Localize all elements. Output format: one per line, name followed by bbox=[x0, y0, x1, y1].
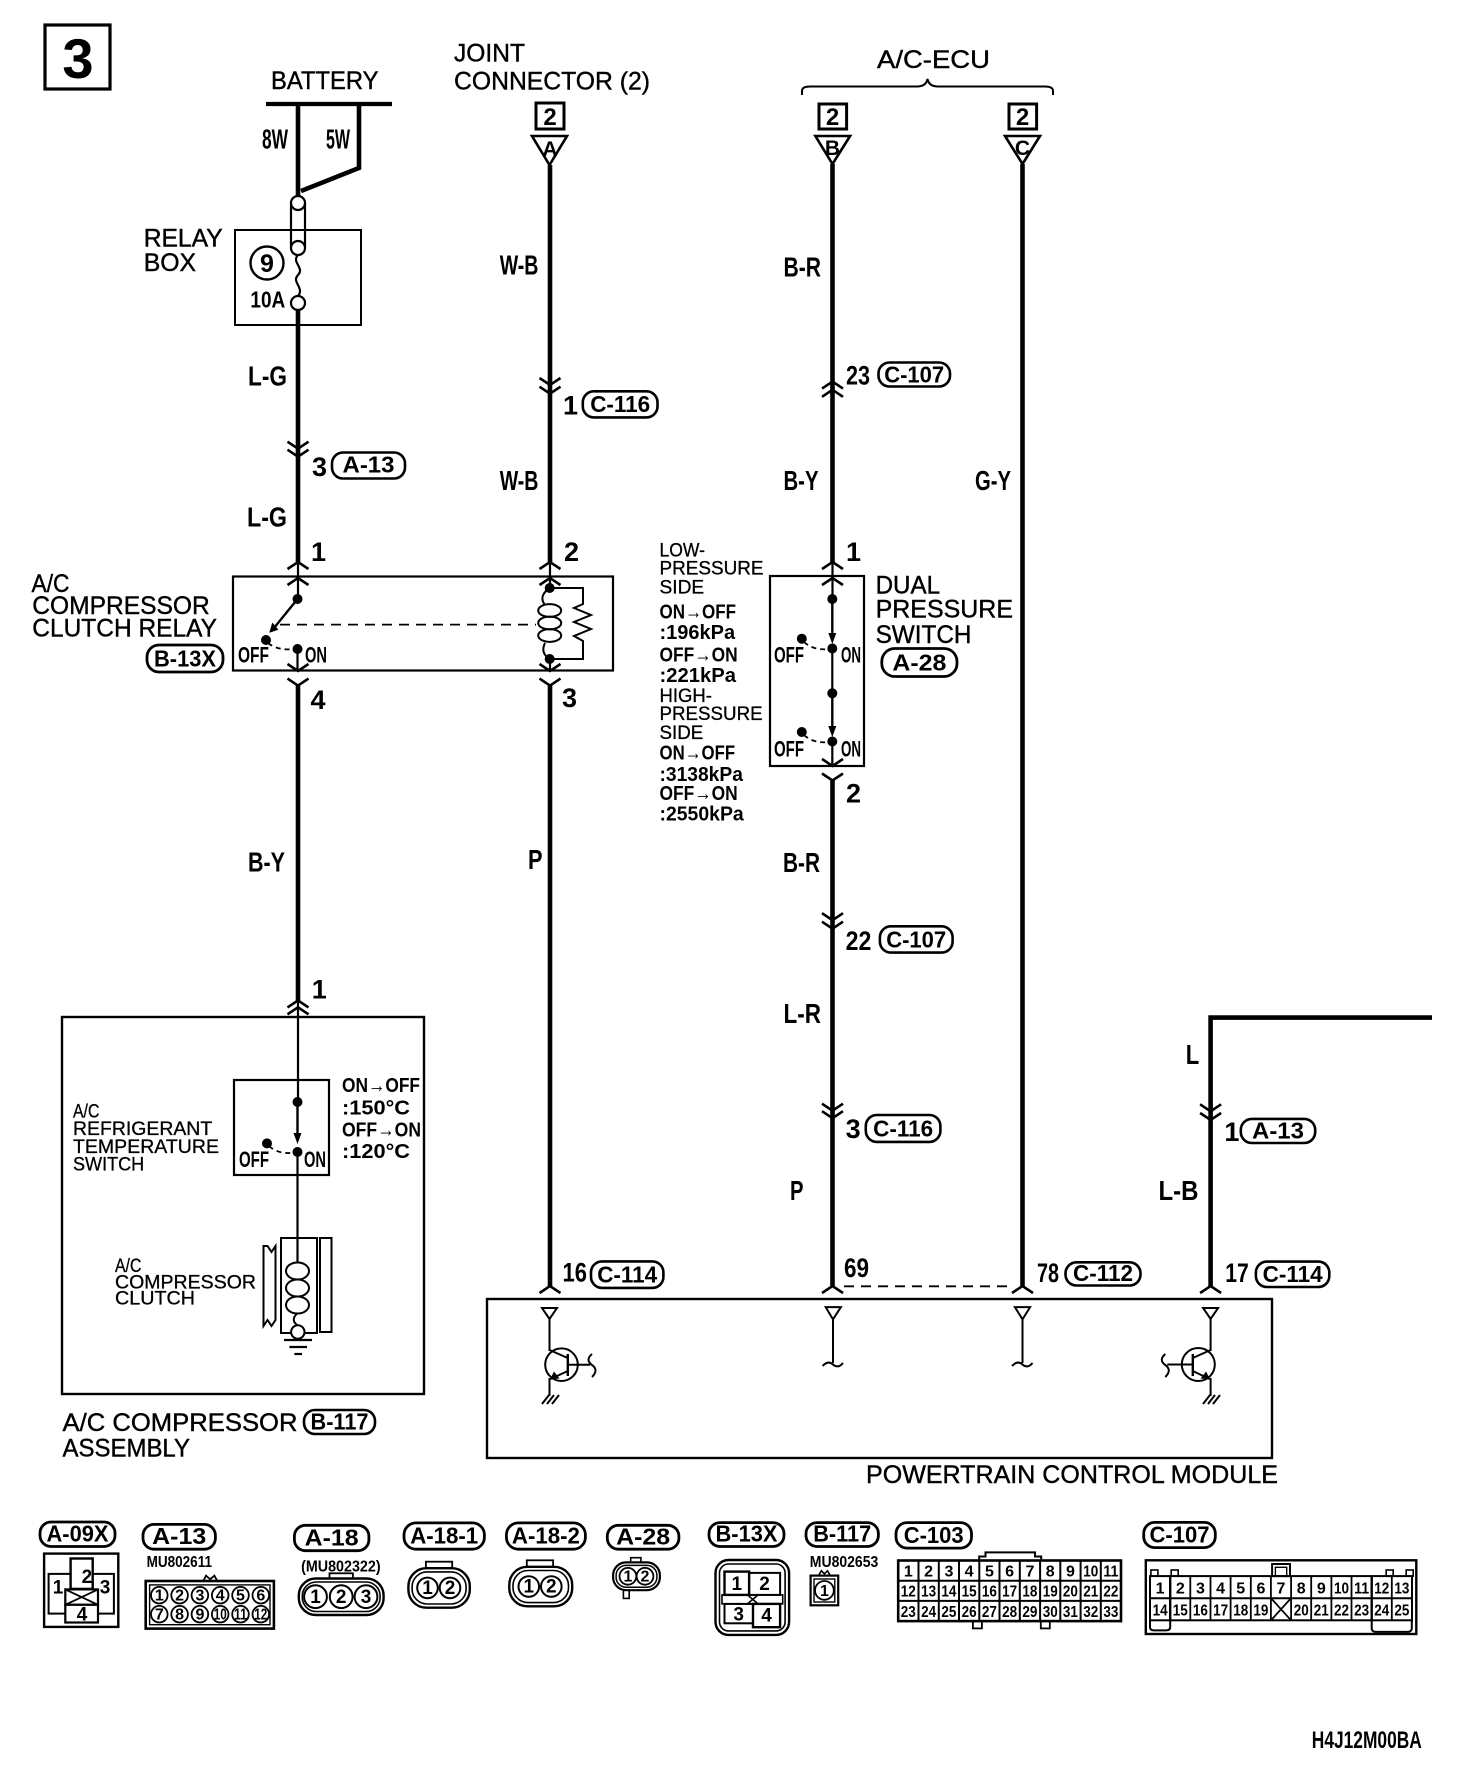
svg-text:3: 3 bbox=[312, 452, 327, 482]
svg-text:28: 28 bbox=[1002, 1604, 1017, 1621]
svg-text:A-28: A-28 bbox=[892, 650, 946, 676]
PCM pin 78 terminal bbox=[1012, 1258, 1141, 1293]
svg-text:11: 11 bbox=[1103, 1564, 1118, 1581]
fuse 9 10A element bbox=[291, 255, 305, 310]
DPS low OFF node bbox=[797, 634, 807, 644]
svg-text:4: 4 bbox=[965, 1564, 974, 1581]
svg-text:9: 9 bbox=[1066, 1564, 1075, 1581]
svg-text:13: 13 bbox=[1394, 1581, 1409, 1598]
A/C compressor clutch relay box bbox=[233, 577, 613, 671]
DPS high dashed throw bbox=[804, 735, 830, 742]
svg-text:25: 25 bbox=[941, 1604, 956, 1621]
svg-text:3: 3 bbox=[733, 1605, 744, 1626]
relay ON contact node bbox=[293, 644, 303, 654]
connector C-103 bottom tabs bbox=[973, 1621, 1050, 1628]
svg-text:C: C bbox=[1015, 137, 1030, 160]
svg-text:9: 9 bbox=[260, 250, 274, 278]
svg-text:6: 6 bbox=[1005, 1564, 1014, 1581]
svg-text:16: 16 bbox=[982, 1584, 997, 1601]
connector A-18-1 pinout bbox=[408, 1562, 469, 1608]
svg-text:30: 30 bbox=[1043, 1604, 1058, 1621]
svg-text:17: 17 bbox=[1225, 1258, 1249, 1288]
svg-text:C-116: C-116 bbox=[590, 391, 650, 417]
svg-text:2: 2 bbox=[1016, 104, 1029, 131]
clutch ground terminal circle bbox=[291, 1325, 304, 1338]
connector B-13X pinout bbox=[716, 1560, 790, 1635]
svg-text:ON: ON bbox=[304, 1147, 326, 1172]
svg-text:B-13X: B-13X bbox=[154, 646, 217, 672]
DPS high side blade arrow bbox=[828, 693, 836, 737]
transistor Q17 bbox=[1162, 1308, 1218, 1396]
relay coil top node bbox=[545, 583, 555, 593]
inline connector 22 (C-107) bbox=[822, 913, 953, 956]
connector A-28 tag bbox=[607, 1523, 679, 1549]
connector A-09X pinout bbox=[44, 1554, 118, 1627]
svg-text:18: 18 bbox=[1233, 1603, 1248, 1620]
connector A-28 pinout bbox=[613, 1558, 660, 1599]
inline connector 1 (A-13) right bbox=[1200, 1104, 1315, 1147]
svg-text:L: L bbox=[1186, 1039, 1200, 1070]
svg-text:A: A bbox=[542, 138, 557, 161]
svg-text::221kPa: :221kPa bbox=[660, 665, 737, 687]
connector B-117 tag bbox=[806, 1521, 878, 1547]
DPS high ON node bbox=[827, 737, 837, 747]
wire relay switch stub bbox=[297, 562, 299, 599]
connector C-107 tag bbox=[1144, 1522, 1216, 1548]
svg-text:W-B: W-B bbox=[500, 465, 539, 496]
svg-text:4: 4 bbox=[1216, 1581, 1225, 1598]
connector B-117 pinout bbox=[811, 1571, 839, 1605]
svg-text:2: 2 bbox=[175, 1588, 184, 1605]
battery bbox=[266, 67, 392, 104]
relay switch contact node bbox=[293, 594, 303, 604]
svg-text:4: 4 bbox=[761, 1606, 772, 1627]
svg-text:14: 14 bbox=[1153, 1603, 1168, 1620]
svg-text:OFF: OFF bbox=[239, 1147, 269, 1172]
svg-text:12: 12 bbox=[901, 1584, 916, 1601]
svg-text:1: 1 bbox=[310, 1587, 321, 1608]
svg-text:3: 3 bbox=[195, 1588, 204, 1605]
A/C compressor clutch relay label bbox=[32, 570, 218, 643]
A/C compressor assembly box bbox=[62, 1017, 424, 1394]
svg-text:L-G: L-G bbox=[247, 502, 287, 533]
relay box label bbox=[144, 225, 223, 278]
svg-text:31: 31 bbox=[1063, 1604, 1078, 1621]
svg-text:20: 20 bbox=[1294, 1603, 1309, 1620]
connector C-107 bottom feet bbox=[1150, 1620, 1412, 1632]
svg-text:1: 1 bbox=[422, 1578, 433, 1599]
relay OFF contact node bbox=[261, 635, 271, 645]
svg-text:ON→OFF: ON→OFF bbox=[660, 602, 737, 624]
svg-text:G-Y: G-Y bbox=[975, 465, 1011, 496]
svg-text:2: 2 bbox=[846, 779, 861, 809]
connector A-18-2 tag bbox=[506, 1523, 585, 1550]
svg-text:2: 2 bbox=[546, 1577, 557, 1598]
svg-text:22: 22 bbox=[846, 926, 872, 956]
temp switch ON node bbox=[293, 1147, 303, 1157]
svg-text:A-13: A-13 bbox=[152, 1523, 206, 1549]
svg-text:7: 7 bbox=[1025, 1564, 1034, 1581]
svg-text:23: 23 bbox=[846, 361, 870, 391]
svg-text:B-R: B-R bbox=[783, 847, 820, 878]
joint connector label bbox=[454, 40, 650, 96]
svg-text:B-R: B-R bbox=[784, 252, 822, 283]
temp switch OFF node bbox=[262, 1138, 272, 1148]
transistor Q16 bbox=[542, 1308, 596, 1396]
svg-text:P: P bbox=[528, 844, 543, 875]
wire B-R ECU-B down bbox=[830, 164, 835, 562]
svg-text:4: 4 bbox=[311, 685, 326, 715]
connector C-107 pin numbers row1 bbox=[1156, 1581, 1410, 1598]
relay coil bottom node bbox=[545, 654, 555, 664]
svg-text:1: 1 bbox=[623, 1569, 632, 1586]
svg-text:10: 10 bbox=[1334, 1581, 1349, 1598]
svg-text::2550kPa: :2550kPa bbox=[660, 804, 745, 826]
svg-text:1: 1 bbox=[312, 975, 327, 1005]
svg-text:POWERTRAIN CONTROL MODULE: POWERTRAIN CONTROL MODULE bbox=[866, 1461, 1278, 1489]
svg-text:C-114: C-114 bbox=[597, 1262, 657, 1288]
svg-text:11: 11 bbox=[234, 1607, 247, 1624]
wire W-B joint connector down bbox=[548, 165, 553, 562]
svg-text:8: 8 bbox=[175, 1607, 184, 1624]
svg-text:27: 27 bbox=[982, 1604, 997, 1621]
svg-text:24: 24 bbox=[1374, 1603, 1389, 1620]
svg-text:OFF→ON: OFF→ON bbox=[660, 783, 738, 805]
svg-text:1: 1 bbox=[311, 537, 326, 567]
connector C-103 tag bbox=[896, 1522, 972, 1548]
svg-text:MU802611: MU802611 bbox=[147, 1554, 212, 1571]
relay pin1 entry chevrons bbox=[288, 562, 309, 585]
svg-text:12: 12 bbox=[1374, 1581, 1389, 1598]
svg-text:L-G: L-G bbox=[248, 361, 287, 392]
svg-text:2: 2 bbox=[445, 1578, 456, 1599]
connector C-103 top latch bbox=[979, 1552, 1041, 1560]
svg-text:22: 22 bbox=[1334, 1603, 1349, 1620]
svg-text:C-114: C-114 bbox=[1263, 1261, 1323, 1287]
svg-text:1: 1 bbox=[732, 1574, 743, 1595]
svg-text:A-18-1: A-18-1 bbox=[410, 1523, 478, 1549]
svg-text:2: 2 bbox=[826, 104, 839, 131]
svg-text:13: 13 bbox=[921, 1584, 936, 1601]
svg-text:17: 17 bbox=[1002, 1584, 1017, 1601]
svg-text:C-112: C-112 bbox=[1073, 1260, 1133, 1286]
wire L horizontal top right bbox=[1211, 1018, 1432, 1286]
A/C-ECU terminal B bbox=[815, 104, 850, 164]
connector A-18 pinout bbox=[299, 1573, 384, 1615]
svg-text:JOINT: JOINT bbox=[454, 40, 525, 68]
connector A-13 pinout bbox=[146, 1576, 274, 1629]
svg-text:6: 6 bbox=[256, 1588, 265, 1605]
svg-text:69: 69 bbox=[844, 1253, 869, 1283]
PCM pin 16 terminal bbox=[540, 1258, 664, 1294]
svg-text:CLUTCH: CLUTCH bbox=[115, 1289, 195, 1310]
svg-text:C-107: C-107 bbox=[1150, 1522, 1210, 1548]
svg-text:3: 3 bbox=[100, 1577, 111, 1598]
svg-text:L-R: L-R bbox=[784, 998, 822, 1029]
connector A-13 tag bbox=[143, 1523, 215, 1549]
A/C-ECU terminal C bbox=[1005, 104, 1040, 164]
connector C-107 housing bbox=[1146, 1560, 1417, 1634]
relay coil wire stub top bbox=[549, 562, 551, 588]
DPS low side top node bbox=[827, 594, 837, 604]
PCM pin 69 terminal bbox=[822, 1253, 869, 1293]
svg-text:22: 22 bbox=[1103, 1584, 1118, 1601]
svg-text:1: 1 bbox=[524, 1577, 535, 1598]
wire G-Y ECU-C down bbox=[1020, 164, 1025, 1286]
connector C-103 pinout grid bbox=[898, 1561, 1121, 1622]
svg-text:A-28: A-28 bbox=[616, 1523, 670, 1549]
svg-text:18: 18 bbox=[1022, 1584, 1037, 1601]
svg-text:23: 23 bbox=[901, 1604, 916, 1621]
svg-text:PRESSURE: PRESSURE bbox=[876, 596, 1013, 624]
connector C-107 pin numbers row2 bbox=[1153, 1599, 1410, 1619]
svg-text:B: B bbox=[825, 137, 840, 160]
wire 5W from battery bbox=[301, 104, 359, 191]
svg-text:3: 3 bbox=[944, 1564, 953, 1581]
relay pin4 exit chevrons bbox=[288, 649, 309, 686]
svg-text:6: 6 bbox=[1256, 1581, 1265, 1598]
svg-text:SWITCH: SWITCH bbox=[73, 1155, 144, 1176]
svg-text:19: 19 bbox=[1043, 1584, 1058, 1601]
connector A-18-1 tag bbox=[404, 1523, 484, 1550]
relay actuation dashed link bbox=[280, 624, 536, 626]
connector A-18-2 pinout bbox=[509, 1560, 572, 1606]
svg-text:21: 21 bbox=[1314, 1603, 1329, 1620]
svg-text:2: 2 bbox=[641, 1569, 650, 1586]
switch tag A-28 bbox=[882, 649, 957, 677]
svg-text:2: 2 bbox=[759, 1574, 770, 1595]
connector C-103 pin numbers row2 bbox=[901, 1584, 1119, 1601]
svg-text:A-13: A-13 bbox=[343, 452, 395, 478]
svg-text:1: 1 bbox=[904, 1564, 913, 1581]
svg-text:5W: 5W bbox=[326, 124, 350, 155]
svg-text:C-103: C-103 bbox=[904, 1522, 964, 1548]
relay coil L1 bbox=[538, 588, 561, 659]
clutch coil frame bbox=[281, 1238, 317, 1333]
DPS exit chevrons bbox=[822, 759, 843, 781]
svg-text:10: 10 bbox=[214, 1607, 227, 1624]
svg-text:MU802653: MU802653 bbox=[810, 1554, 879, 1571]
svg-text:OFF: OFF bbox=[238, 643, 269, 668]
DPS entry chevrons bbox=[822, 562, 843, 585]
A/C refrigerant temperature switch label bbox=[73, 1102, 219, 1176]
powertrain control module box bbox=[487, 1299, 1272, 1458]
svg-text:BATTERY: BATTERY bbox=[271, 67, 379, 95]
DPS low side blade arrow bbox=[828, 599, 836, 644]
svg-text:8: 8 bbox=[1297, 1581, 1306, 1598]
DPS top stub wire bbox=[831, 562, 833, 599]
inline connector 3 (A-13) bbox=[288, 442, 406, 482]
svg-text:BOX: BOX bbox=[144, 249, 197, 277]
temp switch dashed throw bbox=[269, 1146, 295, 1153]
A/C compressor clutch label bbox=[115, 1256, 256, 1310]
clutch pulley belt symbol bbox=[264, 1246, 276, 1326]
svg-text:1: 1 bbox=[563, 391, 578, 421]
relay OFF-ON dashed throw bbox=[268, 643, 295, 649]
svg-text:CLUTCH RELAY: CLUTCH RELAY bbox=[32, 615, 217, 643]
svg-text:21: 21 bbox=[1083, 1584, 1098, 1601]
DPS low ON node bbox=[827, 644, 837, 654]
svg-text:23: 23 bbox=[1354, 1603, 1369, 1620]
DPS mid wire bbox=[831, 649, 833, 694]
dual pressure switch label bbox=[876, 572, 1013, 650]
clutch rotor bar bbox=[320, 1238, 332, 1332]
svg-text:2: 2 bbox=[924, 1564, 933, 1581]
svg-text:PRESSURE: PRESSURE bbox=[660, 559, 764, 580]
svg-text:3: 3 bbox=[62, 27, 93, 90]
svg-text::150°C: :150°C bbox=[342, 1098, 410, 1120]
svg-text:29: 29 bbox=[1022, 1604, 1037, 1621]
svg-text:9: 9 bbox=[1317, 1581, 1326, 1598]
svg-text:A-13: A-13 bbox=[1252, 1118, 1304, 1144]
svg-text:L-B: L-B bbox=[1159, 1175, 1199, 1206]
svg-text:OFF: OFF bbox=[774, 737, 804, 762]
svg-text:10A: 10A bbox=[250, 287, 285, 313]
svg-text:32: 32 bbox=[1083, 1604, 1098, 1621]
relay pin2 entry chevrons bbox=[540, 562, 561, 585]
relay box outline bbox=[235, 230, 361, 325]
svg-text:26: 26 bbox=[962, 1604, 977, 1621]
svg-text:B-117: B-117 bbox=[311, 1409, 369, 1435]
svg-text:OFF: OFF bbox=[774, 643, 804, 668]
svg-text:SWITCH: SWITCH bbox=[876, 621, 972, 649]
A/C compressor assembly caption bbox=[63, 1409, 376, 1463]
connector C-107 pin grid bbox=[1150, 1576, 1412, 1620]
svg-text:SIDE: SIDE bbox=[660, 723, 704, 744]
DPS high OFF node bbox=[797, 727, 807, 737]
svg-text:2: 2 bbox=[1176, 1581, 1185, 1598]
svg-text:C-107: C-107 bbox=[884, 362, 944, 388]
wire temp switch to clutch coil bbox=[296, 1152, 298, 1262]
svg-text:12: 12 bbox=[254, 1607, 267, 1624]
relay coil shunt resistor bbox=[550, 588, 591, 659]
svg-text:3: 3 bbox=[1196, 1581, 1205, 1598]
svg-text:1: 1 bbox=[1224, 1117, 1239, 1147]
connector A-09X tag bbox=[40, 1521, 115, 1547]
DPS bottom stub bbox=[831, 742, 833, 767]
svg-text:5: 5 bbox=[1236, 1581, 1245, 1598]
connector C-103 pin numbers row1 bbox=[904, 1564, 1119, 1581]
svg-text:1: 1 bbox=[53, 1577, 64, 1598]
svg-text:A/C COMPRESSOR: A/C COMPRESSOR bbox=[63, 1409, 298, 1437]
svg-text:2: 2 bbox=[336, 1587, 347, 1608]
svg-text:78: 78 bbox=[1037, 1258, 1059, 1288]
svg-text:16: 16 bbox=[1193, 1603, 1208, 1620]
temp switch top node bbox=[293, 1097, 303, 1107]
svg-text:2: 2 bbox=[543, 104, 556, 131]
svg-text:5: 5 bbox=[236, 1588, 245, 1605]
connector C-103 pin numbers row3 bbox=[901, 1604, 1119, 1621]
temperature thresholds bbox=[342, 1075, 421, 1163]
svg-text:24: 24 bbox=[921, 1604, 936, 1621]
A/C-ECU brace bbox=[802, 79, 1053, 95]
wire B-Y relay to compressor bbox=[296, 686, 301, 1001]
svg-text:4: 4 bbox=[77, 1605, 88, 1626]
inline connector 3 (C-116) bbox=[822, 1104, 940, 1144]
PCM 69-78 dashed link bbox=[844, 1285, 1011, 1287]
svg-text:1: 1 bbox=[820, 1583, 829, 1600]
wire P relay to PCM bbox=[548, 686, 553, 1286]
svg-text:A-09X: A-09X bbox=[47, 1521, 110, 1547]
svg-text:3: 3 bbox=[562, 683, 577, 713]
svg-text:33: 33 bbox=[1103, 1604, 1118, 1621]
ground Q16 bbox=[542, 1395, 559, 1404]
svg-text:CONNECTOR (2): CONNECTOR (2) bbox=[454, 68, 650, 96]
svg-text:1: 1 bbox=[1156, 1581, 1165, 1598]
connector A-18 tag bbox=[294, 1525, 369, 1551]
svg-text:2: 2 bbox=[564, 537, 579, 567]
fusible link bbox=[291, 196, 305, 255]
wire B-R DPS to PCM bbox=[830, 781, 835, 1287]
svg-text:1: 1 bbox=[155, 1588, 164, 1605]
svg-text:OFF→ON: OFF→ON bbox=[342, 1120, 421, 1142]
svg-text::120°C: :120°C bbox=[342, 1141, 410, 1163]
DPS low dashed throw bbox=[804, 642, 830, 649]
ground Q17 bbox=[1203, 1395, 1220, 1404]
wire into temperature switch bbox=[297, 1000, 299, 1102]
svg-text:B-Y: B-Y bbox=[784, 465, 819, 496]
PCM pin 17 terminal bbox=[1200, 1258, 1329, 1293]
svg-text:ASSEMBLY: ASSEMBLY bbox=[63, 1435, 191, 1463]
svg-text:11: 11 bbox=[1354, 1581, 1369, 1598]
svg-text:W-B: W-B bbox=[500, 250, 539, 281]
svg-text:A-18: A-18 bbox=[305, 1525, 359, 1551]
svg-text:7: 7 bbox=[1277, 1581, 1286, 1598]
svg-text:15: 15 bbox=[962, 1584, 977, 1601]
compressor assembly pin1 chevrons bbox=[288, 975, 327, 1015]
svg-text:4: 4 bbox=[216, 1588, 225, 1605]
wire L-G fuse to relay bbox=[296, 310, 301, 562]
svg-text:ON→OFF: ON→OFF bbox=[342, 1075, 420, 1097]
connector B-13X tag bbox=[709, 1521, 784, 1547]
svg-text:B-117: B-117 bbox=[813, 1521, 871, 1547]
svg-text:5: 5 bbox=[985, 1564, 994, 1581]
svg-text:2: 2 bbox=[82, 1567, 93, 1588]
svg-text:8W: 8W bbox=[262, 124, 288, 155]
svg-text:1: 1 bbox=[846, 537, 861, 567]
svg-text:B-13X: B-13X bbox=[716, 1521, 779, 1547]
svg-text:17: 17 bbox=[1213, 1603, 1228, 1620]
svg-text:15: 15 bbox=[1173, 1603, 1188, 1620]
svg-text:16: 16 bbox=[563, 1258, 588, 1288]
PCM terminal symbol 69 bbox=[823, 1307, 843, 1366]
joint connector terminal A bbox=[532, 103, 567, 165]
fuse number 9 bbox=[251, 247, 284, 280]
DPS mid node bbox=[827, 688, 837, 698]
svg-text:19: 19 bbox=[1253, 1603, 1268, 1620]
svg-text:OFF→ON: OFF→ON bbox=[660, 645, 738, 667]
inline connector 23 (C-107) bbox=[822, 361, 950, 397]
svg-text:25: 25 bbox=[1394, 1603, 1409, 1620]
svg-text:8: 8 bbox=[1046, 1564, 1055, 1581]
svg-text:ON: ON bbox=[841, 737, 861, 762]
svg-text:C-107: C-107 bbox=[886, 926, 946, 952]
low/high pressure side notes bbox=[660, 541, 764, 826]
svg-text:14: 14 bbox=[941, 1584, 956, 1601]
svg-text:3: 3 bbox=[361, 1587, 372, 1608]
svg-text:SIDE: SIDE bbox=[660, 578, 705, 599]
svg-text:H4J12M00BA: H4J12M00BA bbox=[1312, 1727, 1422, 1754]
svg-text:C-116: C-116 bbox=[873, 1116, 933, 1142]
dual pressure switch box bbox=[770, 576, 864, 766]
svg-text::196kPa: :196kPa bbox=[660, 622, 736, 644]
svg-text:PRESSURE: PRESSURE bbox=[660, 704, 763, 725]
svg-text:ON: ON bbox=[841, 643, 861, 668]
svg-text:10: 10 bbox=[1083, 1564, 1098, 1581]
PCM terminal symbol 78 bbox=[1012, 1307, 1032, 1366]
svg-text:ON→OFF: ON→OFF bbox=[660, 743, 736, 765]
svg-text:B-Y: B-Y bbox=[248, 847, 285, 878]
